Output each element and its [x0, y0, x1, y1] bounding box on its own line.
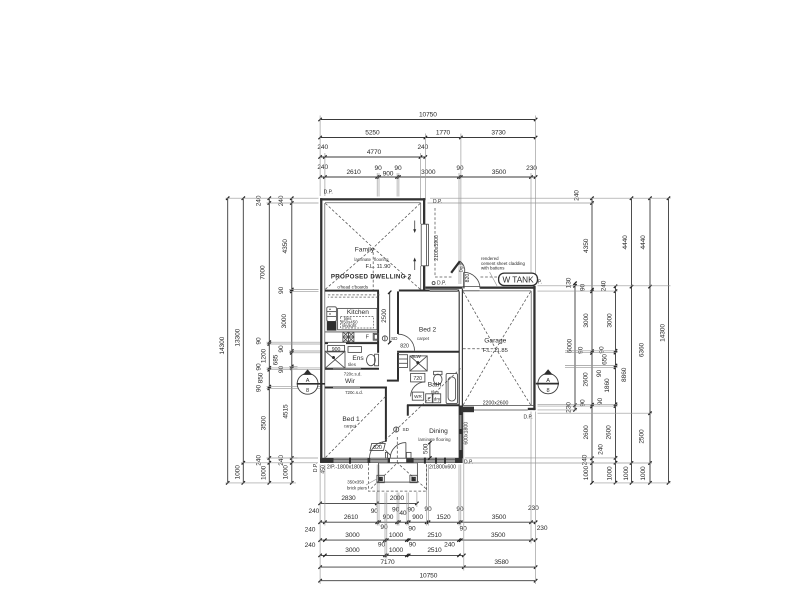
svg-text:Dg.9: Dg.9 [458, 262, 463, 272]
svg-text:90: 90 [256, 363, 263, 371]
svg-text:A: A [546, 378, 550, 384]
svg-text:4440: 4440 [640, 235, 647, 250]
svg-text:Ens: Ens [352, 355, 364, 362]
svg-text:3000: 3000 [345, 547, 360, 554]
right chain 240/3000/90/650/90/1860/90/2600/240/1000 [615, 286, 617, 482]
svg-text:7170: 7170 [380, 559, 395, 566]
door Dg.9 gate [451, 261, 460, 273]
svg-text:1770: 1770 [436, 129, 451, 136]
wall top exterior [320, 198, 425, 200]
svg-text:90: 90 [456, 165, 464, 172]
svg-text:8: 8 [547, 388, 550, 394]
svg-text:1000: 1000 [389, 547, 404, 554]
svg-text:90: 90 [456, 506, 464, 513]
right chain 240/4350/90/3000/90/2600/90/2600/240/1000 [591, 198, 593, 483]
svg-text:1000: 1000 [260, 465, 267, 480]
svg-text:230: 230 [528, 505, 539, 512]
wall bed2 west [397, 291, 399, 334]
svg-text:10750: 10750 [419, 111, 437, 118]
pier hatched at garage SW [461, 407, 474, 413]
porch dashed outline [368, 463, 426, 491]
svg-text:1000: 1000 [283, 465, 290, 480]
svg-text:SLW: SLW [411, 354, 421, 359]
svg-text:1860: 1860 [604, 378, 611, 393]
wall garage top exterior [480, 287, 536, 289]
svg-text:8: 8 [306, 388, 309, 394]
svg-text:3000: 3000 [281, 314, 288, 329]
svg-text:D.P.: D.P. [313, 463, 319, 472]
svg-text:D.P.: D.P. [524, 415, 533, 421]
bottom dimension row 240/3000/90/1000/90/2510/90/3500/230 [320, 539, 535, 541]
svg-text:2600: 2600 [583, 372, 590, 387]
svg-text:4515: 4515 [283, 404, 290, 419]
toilet bath [434, 371, 442, 374]
svg-text:4350: 4350 [282, 239, 289, 254]
brick pier left [377, 475, 384, 482]
wall bath south stub [387, 380, 399, 382]
wall ens south / wir north [325, 368, 333, 370]
svg-text:3000: 3000 [421, 169, 436, 176]
svg-text:240: 240 [444, 541, 455, 548]
svg-text:240: 240 [278, 195, 285, 206]
wall bottom exterior [320, 457, 463, 459]
laundry dry box [433, 394, 441, 403]
svg-text:2/P.-1800x1800: 2/P.-1800x1800 [327, 465, 363, 471]
left chain 13300/1000 [242, 198, 244, 483]
svg-text:650: 650 [602, 354, 609, 365]
svg-text:230: 230 [537, 525, 548, 532]
svg-text:90: 90 [408, 525, 416, 532]
roof ridge porch [396, 437, 398, 463]
DP passage [432, 282, 435, 285]
svg-text:90: 90 [375, 165, 383, 172]
top extension lines [319, 116, 321, 197]
svg-text:90: 90 [460, 525, 468, 532]
section marker A/8 left [297, 373, 318, 394]
svg-text:3500: 3500 [260, 416, 267, 431]
svg-text:450: 450 [320, 465, 326, 474]
svg-text:A: A [306, 378, 310, 384]
svg-text:3000: 3000 [607, 313, 614, 328]
wall garage bottom exterior [463, 408, 474, 410]
svg-text:skylight: skylight [342, 323, 357, 328]
svg-text:carpet: carpet [417, 336, 430, 341]
wall bath north (bed2 south) [397, 351, 459, 353]
windows bottom wall [334, 459, 368, 461]
svg-text:2500: 2500 [381, 308, 388, 322]
svg-text:3500: 3500 [492, 169, 507, 176]
door label 820 box bed1 [370, 443, 385, 450]
svg-text:600x1800: 600x1800 [464, 422, 470, 445]
svg-text:4440: 4440 [622, 235, 629, 250]
window 2100x3900 family east [420, 224, 422, 266]
svg-text:900: 900 [383, 171, 394, 178]
svg-text:240: 240 [256, 195, 263, 206]
dim 500 door [429, 443, 431, 458]
svg-text:3000: 3000 [583, 313, 590, 328]
svg-text:3730: 3730 [491, 129, 506, 136]
svg-text:dry: dry [434, 396, 441, 401]
right chain 130/6000/230 [574, 283, 576, 410]
vanity ens [348, 347, 362, 353]
right extension lines [430, 197, 671, 199]
svg-text:90: 90 [580, 399, 587, 407]
door bed2 arc [398, 334, 414, 350]
svg-text:3000: 3000 [345, 532, 360, 539]
svg-text:2610: 2610 [346, 169, 361, 176]
svg-text:3500: 3500 [491, 532, 506, 539]
svg-text:laminate flooring: laminate flooring [418, 437, 451, 442]
svg-text:flooring: flooring [374, 257, 389, 262]
svg-text:SD: SD [391, 336, 398, 341]
wall wir south / bed1 north [325, 387, 333, 389]
bottom dimension row 240/3000/90/1000/90/2510/240 [320, 554, 464, 556]
svg-text:2200x2600: 2200x2600 [483, 400, 509, 406]
wall garage right exterior [533, 286, 535, 410]
svg-text:10750: 10750 [419, 573, 437, 580]
section marker A/8 right [538, 373, 558, 393]
svg-text:820: 820 [400, 343, 409, 349]
eave dashed line north passage [434, 208, 436, 277]
svg-text:900: 900 [412, 514, 423, 521]
svg-text:D.P.: D.P. [433, 199, 442, 205]
svg-text:PROPOSED DWELLING 2: PROPOSED DWELLING 2 [331, 274, 412, 281]
o'head c'boards dashed [328, 294, 380, 296]
svg-text:90: 90 [409, 541, 417, 548]
svg-text:2600: 2600 [606, 425, 613, 440]
roof ridge family [372, 248, 374, 290]
svg-text:130: 130 [566, 277, 573, 288]
svg-text:90: 90 [278, 345, 285, 353]
svg-text:2510: 2510 [427, 547, 442, 554]
svg-text:2830: 2830 [341, 495, 356, 502]
svg-text:500: 500 [422, 443, 429, 454]
wall bath west [397, 353, 399, 380]
entry door jambs [385, 452, 387, 458]
svg-text:720c.s.d.: 720c.s.d. [344, 371, 362, 376]
smoke detector hall [382, 336, 387, 341]
oven kitchen [327, 321, 337, 330]
wall kitchen east [377, 291, 379, 352]
wall bed2 top [399, 290, 430, 292]
right chain 4440/6360/2500/1000 [649, 198, 651, 483]
svg-text:90: 90 [597, 398, 604, 406]
bottom dimension row 2830/2000 [320, 502, 417, 504]
svg-text:Garage: Garage [484, 338, 506, 345]
svg-text:40: 40 [399, 510, 407, 517]
svg-text:230: 230 [566, 402, 573, 413]
svg-text:240: 240 [256, 455, 263, 466]
top dimension row 10750 [320, 119, 535, 121]
svg-text:5250: 5250 [365, 129, 380, 136]
svg-text:D.P.: D.P. [437, 281, 446, 287]
svg-text:240: 240 [317, 164, 328, 171]
brick pier right [410, 475, 417, 482]
svg-text:240: 240 [598, 444, 605, 455]
svg-text:laminate: laminate [354, 257, 371, 262]
svg-text:8860: 8860 [621, 367, 628, 382]
svg-text:SD: SD [403, 427, 410, 432]
cabinet bath west [398, 355, 407, 368]
bottom dimension row 10750 [320, 580, 535, 582]
svg-text:720: 720 [413, 376, 422, 382]
laundry E box [426, 394, 433, 403]
windows 600x1800 east dining [459, 406, 462, 416]
wall ens north [325, 342, 328, 344]
svg-text:3500: 3500 [492, 514, 507, 521]
kitchen island bench [338, 308, 377, 329]
bottom dimension row 240/2610/90/900/90/400/90/900/90/1520/90/3500/230 [320, 521, 535, 523]
bottom extension lines [319, 465, 321, 585]
top dimension row 240/4770/240 [320, 156, 425, 158]
svg-text:1000: 1000 [623, 466, 630, 481]
svg-text:carpet: carpet [344, 424, 357, 429]
svg-text:W TANK: W TANK [502, 275, 534, 284]
svg-text:6360: 6360 [638, 342, 645, 357]
right chain 14300 [668, 198, 670, 483]
svg-text:1000: 1000 [235, 465, 242, 480]
svg-text:850: 850 [258, 372, 265, 383]
wall family bottom [325, 290, 379, 292]
wall laundry-dining [407, 404, 459, 406]
svg-text:240: 240 [582, 454, 589, 465]
svg-text:2100x3900: 2100x3900 [434, 235, 440, 261]
svg-text:14300: 14300 [660, 324, 667, 342]
svg-text:240: 240 [417, 144, 428, 151]
svg-text:2/1800x600: 2/1800x600 [429, 464, 456, 470]
svg-text:P.: P. [538, 280, 542, 286]
svg-text:3580: 3580 [494, 559, 509, 566]
svg-text:685: 685 [273, 354, 280, 365]
svg-text:90: 90 [278, 286, 285, 294]
top dimension row 240/2610/90/900/90/3000/90/3500/230 [320, 176, 535, 178]
svg-text:90: 90 [596, 370, 603, 378]
top dimension row 5250/1770/3730 [320, 137, 535, 139]
svg-text:820: 820 [465, 274, 471, 283]
svg-text:2500: 2500 [638, 429, 645, 444]
arrow up window family [414, 260, 416, 271]
wall east house-garage [458, 291, 460, 458]
wall family east exterior [423, 198, 425, 224]
svg-text:D.P.: D.P. [464, 459, 473, 465]
cooktop kitchen [343, 332, 349, 337]
window bed2 top [430, 289, 458, 291]
dim 2500 hall [389, 292, 391, 342]
svg-text:13300: 13300 [235, 328, 242, 346]
svg-text:720c.s.d.: 720c.s.d. [345, 390, 363, 395]
tub bath [446, 373, 457, 403]
fridge kitchen [327, 307, 337, 322]
svg-text:Bath: Bath [428, 382, 442, 389]
shower bath [410, 356, 427, 371]
svg-text:Bed 1: Bed 1 [342, 416, 360, 423]
svg-text:D.P.: D.P. [324, 190, 333, 196]
svg-text:90: 90 [278, 366, 285, 374]
svg-text:4770: 4770 [367, 149, 382, 156]
garage side door 820 [463, 272, 465, 288]
svg-text:1520: 1520 [436, 514, 451, 521]
svg-text:90: 90 [256, 385, 263, 393]
right chain 4440/8860/1000 [631, 198, 633, 483]
bottom dimension row 7170/3580 [320, 566, 535, 568]
svg-text:90: 90 [378, 541, 386, 548]
arrow down window family [414, 221, 416, 232]
door 900 cavity slider ens [328, 345, 345, 352]
svg-text:1000: 1000 [640, 466, 647, 481]
svg-text:Bed 2: Bed 2 [419, 327, 437, 334]
svg-text:350x350: 350x350 [347, 480, 364, 485]
svg-text:4350: 4350 [583, 238, 590, 253]
svg-text:14300: 14300 [219, 336, 226, 354]
door 720 bath [411, 373, 425, 382]
sink kitchen [373, 333, 378, 340]
laundry WR box [412, 392, 423, 400]
svg-text:1000: 1000 [389, 532, 404, 539]
svg-text:2510: 2510 [427, 532, 442, 539]
shower ens [325, 351, 345, 368]
svg-text:WR: WR [414, 394, 422, 399]
left chain 240/7000/90/1200/90/850/90/3500/240/1000 [268, 198, 270, 483]
svg-text:Dining: Dining [429, 428, 448, 435]
porch slab [379, 463, 418, 482]
svg-text:F.L. 11.90: F.L. 11.90 [365, 264, 390, 270]
svg-text:900: 900 [332, 347, 341, 353]
svg-text:Family: Family [355, 246, 375, 253]
svg-text:240: 240 [309, 508, 320, 515]
wall bed1 east [385, 387, 387, 442]
svg-text:240: 240 [574, 190, 581, 201]
svg-text:240: 240 [278, 455, 285, 466]
left chain 240/4350/90/3000/90/685/90/4515/240/1000 [291, 198, 293, 483]
svg-text:o'head c'boards: o'head c'boards [337, 285, 369, 290]
svg-text:240: 240 [317, 144, 328, 151]
svg-text:F: F [366, 335, 369, 341]
kitchen bench south [325, 331, 377, 333]
roof ridge garage [463, 348, 496, 350]
svg-text:2600: 2600 [583, 425, 590, 440]
svg-text:7000: 7000 [260, 265, 267, 280]
svg-text:90: 90 [256, 337, 263, 345]
porch roof dashed diagonals [371, 463, 397, 489]
svg-text:900: 900 [383, 514, 394, 521]
svg-text:1000: 1000 [607, 466, 614, 481]
roof hip dining [379, 369, 461, 447]
svg-text:Wir: Wir [345, 378, 356, 385]
svg-text:90: 90 [394, 165, 402, 172]
left chain 14300 [227, 198, 229, 483]
svg-text:brick piers: brick piers [347, 485, 368, 490]
svg-text:820: 820 [373, 445, 382, 451]
W TANK [499, 273, 538, 285]
svg-text:F.L. 11.85: F.L. 11.85 [483, 348, 508, 354]
roof hips family room [325, 203, 373, 247]
wall left exterior [320, 198, 322, 463]
wall passage fam-garage exterior [425, 287, 462, 289]
door bed1 arc [370, 442, 386, 458]
svg-text:240: 240 [305, 527, 316, 534]
svg-text:240: 240 [305, 542, 316, 549]
smoke detector dining [394, 427, 399, 432]
svg-text:tiles: tiles [348, 362, 357, 367]
svg-text:1000: 1000 [583, 466, 590, 481]
roof hips garage [463, 292, 495, 349]
left extension lines [226, 197, 319, 199]
toilet ens [375, 354, 379, 366]
roof hip bed1 [326, 396, 387, 458]
entry door arc [390, 443, 406, 459]
svg-text:1200: 1200 [260, 348, 267, 363]
svg-text:with battens: with battens [481, 266, 505, 271]
svg-text:2610: 2610 [344, 514, 359, 521]
svg-text:90: 90 [580, 284, 587, 292]
svg-text:E: E [427, 396, 430, 401]
